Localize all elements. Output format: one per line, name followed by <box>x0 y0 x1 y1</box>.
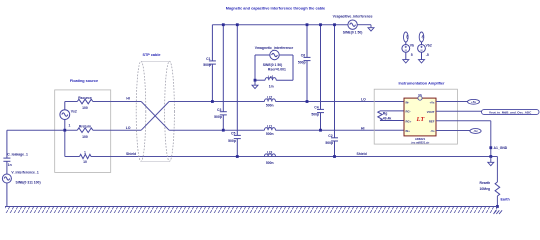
cable bottom connector <box>141 160 170 162</box>
node C2-bus junction <box>333 23 336 26</box>
svg-text:C3: C3 <box>217 108 221 112</box>
node C1-LO junction <box>211 100 214 103</box>
capacitor C3 <box>220 25 227 131</box>
svg-text:.inc ad8221.cir: .inc ad8221.cir <box>411 141 430 145</box>
node shield-REF junction <box>489 155 492 158</box>
wire VOUT to output tag <box>436 110 482 112</box>
node Vs2-LO junction <box>63 129 66 132</box>
voltage source Vb <box>404 32 409 42</box>
svg-text:STP cable: STP cable <box>142 53 160 57</box>
wire LO top right <box>169 101 264 103</box>
svg-text:REF: REF <box>429 119 435 123</box>
voltage source Vb2 <box>419 32 424 42</box>
svg-text:500p: 500p <box>214 115 222 119</box>
svg-text:HI: HI <box>126 96 129 100</box>
capacitor C_leakage_1 <box>3 130 10 174</box>
svg-text:Vout_to_MdB_and_Osc_ADC: Vout_to_MdB_and_Osc_ADC <box>489 110 532 114</box>
svg-text:1m: 1m <box>269 85 274 89</box>
svg-text:500p: 500p <box>298 61 306 65</box>
node C6-LO junction <box>306 100 309 103</box>
svg-text:LT: LT <box>416 116 426 123</box>
resistor Rg <box>378 111 404 121</box>
voltage source Vcapacitive_interference <box>348 20 357 29</box>
svg-text:500n: 500n <box>266 132 274 136</box>
svg-text:IN+: IN+ <box>406 129 411 133</box>
wire REF down <box>436 120 491 122</box>
svg-text:Lt1: Lt1 <box>267 124 272 128</box>
svg-text:IN-: IN- <box>406 100 410 104</box>
svg-text:Lt2: Lt2 <box>267 96 272 100</box>
capacitor C1 <box>209 25 216 102</box>
floating source annotation box <box>55 90 111 172</box>
svg-text:Rg: Rg <box>383 112 388 116</box>
capacitor C6 <box>304 25 311 102</box>
resistor Rearth <box>495 182 500 196</box>
svg-text:C5: C5 <box>231 132 235 136</box>
wire HI left <box>65 101 78 103</box>
svg-text:500p: 500p <box>203 63 211 67</box>
svg-text:1n: 1n <box>8 163 12 167</box>
svg-text:Rearth: Rearth <box>480 181 491 185</box>
svg-text:Vcapacitive_interference: Vcapacitive_interference <box>333 15 373 19</box>
svg-text:-5: -5 <box>426 53 429 57</box>
node C3-HI junction <box>222 129 225 132</box>
svg-text:Vmagnetic_interference: Vmagnetic_interference <box>255 46 294 50</box>
svg-text:SINE(0 311 100): SINE(0 311 100) <box>16 181 41 185</box>
cable top connector <box>141 60 170 62</box>
wire shield corner down to Rearth <box>496 157 498 183</box>
node C5-Shield junction <box>236 155 239 158</box>
wire Vs2 bottom to shield <box>64 130 66 156</box>
svg-text:500p: 500p <box>228 139 236 143</box>
svg-text:-5v: -5v <box>473 129 478 133</box>
svg-text:+5v: +5v <box>471 100 476 104</box>
svg-text:500p: 500p <box>325 141 333 145</box>
wire cross diagonal 1 <box>141 102 169 131</box>
svg-text:Floating source: Floating source <box>70 79 98 83</box>
cable ellipse left <box>136 61 146 161</box>
ground at Vcap <box>368 28 374 31</box>
wire -Vs to -5v tag <box>436 130 470 132</box>
svg-text:-Vs: -Vs <box>430 129 435 133</box>
svg-text:C_leakage_1: C_leakage_1 <box>7 153 28 157</box>
svg-text:LO: LO <box>361 98 366 102</box>
svg-text:VS: VS <box>418 93 422 97</box>
svg-text:Vb2: Vb2 <box>426 43 432 47</box>
node C4-HI junction <box>319 129 322 132</box>
net flag +5v <box>468 99 480 104</box>
svg-text:10: 10 <box>83 160 87 164</box>
wire LO left <box>7 129 77 131</box>
net flag -5v <box>470 129 481 134</box>
inductor Lt3 <box>264 154 275 157</box>
wire +Vs to +5v tag <box>436 101 468 103</box>
wire top bus <box>212 24 348 26</box>
voltage source Vs2 <box>60 102 70 131</box>
earth symbol bottom right <box>494 210 503 214</box>
svg-text:RG-: RG- <box>406 110 411 114</box>
svg-text:C1: C1 <box>206 57 210 61</box>
svg-text:Rser=0.001: Rser=0.001 <box>268 67 286 71</box>
svg-text:Shield: Shield <box>126 152 136 156</box>
resistor Rreturn <box>77 128 92 133</box>
capacitor C2 <box>331 25 338 157</box>
svg-text:Vs2: Vs2 <box>71 109 77 113</box>
svg-text:Rsource: Rsource <box>78 96 92 100</box>
svg-text:Shield: Shield <box>357 152 367 156</box>
resistor Rsource <box>77 99 92 104</box>
svg-text:VOUT: VOUT <box>427 110 435 114</box>
inductor Lt2 <box>264 99 275 102</box>
svg-text:Instrumentation Amplifier: Instrumentation Amplifier <box>398 82 445 86</box>
node C4-bus junction <box>319 23 322 26</box>
svg-text:AD8221: AD8221 <box>415 137 426 141</box>
op-amp U1 AD8221 <box>404 98 436 136</box>
svg-text:RG+: RG+ <box>406 119 412 123</box>
node A1_GND flag <box>489 146 492 149</box>
svg-text:+Vs: +Vs <box>429 100 434 104</box>
svg-text:HI: HI <box>361 126 364 130</box>
node C6-bus junction <box>306 23 309 26</box>
svg-text:V_interference_1: V_interference_1 <box>11 171 38 175</box>
voltage source V_interference_1 <box>2 174 11 207</box>
resistor R1 shield <box>80 154 92 158</box>
svg-text:Rreturn: Rreturn <box>79 125 91 129</box>
svg-text:100: 100 <box>82 106 88 110</box>
svg-text:1: 1 <box>84 151 86 155</box>
svg-text:-5v: -5v <box>421 34 425 38</box>
svg-text:C2: C2 <box>328 134 332 138</box>
inductor Lt1 <box>264 128 275 131</box>
svg-text:Lt3: Lt3 <box>267 151 272 155</box>
earth line with hatching <box>5 206 497 208</box>
svg-text:LO: LO <box>126 126 131 130</box>
svg-text:10Meg: 10Meg <box>480 187 491 191</box>
svg-text:Magnetic and capacitive interf: Magnetic and capacitive interference thr… <box>226 7 325 11</box>
svg-text:Earth: Earth <box>501 197 510 201</box>
ground at shield <box>490 157 492 163</box>
node C5-bus junction <box>236 23 239 26</box>
svg-text:A1_GND: A1_GND <box>494 146 508 150</box>
node Rearth-earth junction <box>496 205 499 208</box>
svg-text:SINE(0 1 50): SINE(0 1 50) <box>263 63 283 67</box>
capacitor C4 <box>317 25 324 131</box>
svg-text:Lx1: Lx1 <box>268 75 274 79</box>
svg-text:100: 100 <box>82 135 88 139</box>
wire cross diagonal 2 <box>141 102 169 131</box>
svg-text:C6: C6 <box>301 54 305 58</box>
wire HI mid right <box>169 129 264 131</box>
inductor Lx1 <box>265 78 276 81</box>
svg-text:SINE(0 1 50): SINE(0 1 50) <box>343 31 363 35</box>
svg-text:5: 5 <box>411 53 413 57</box>
capacitor C5 <box>234 25 241 157</box>
wire shield left <box>65 156 80 158</box>
svg-text:Vb: Vb <box>410 43 414 47</box>
instrumentation amplifier annotation box <box>374 89 457 144</box>
svg-text:1: 1 <box>69 123 71 127</box>
net flag Vout_to_MdB_and_Osc_ADC <box>482 110 540 115</box>
svg-text:C4: C4 <box>314 106 318 110</box>
svg-text:500p: 500p <box>311 113 319 117</box>
cable ellipse right <box>165 61 175 161</box>
svg-text:49.4k: 49.4k <box>383 117 392 121</box>
node C3-bus junction <box>222 23 225 26</box>
svg-text:+5v: +5v <box>405 34 409 39</box>
node C2-Shield junction <box>333 155 336 158</box>
ground at Vmag loop <box>252 85 258 88</box>
svg-text:500n: 500n <box>266 104 274 108</box>
svg-text:500n: 500n <box>266 161 274 165</box>
